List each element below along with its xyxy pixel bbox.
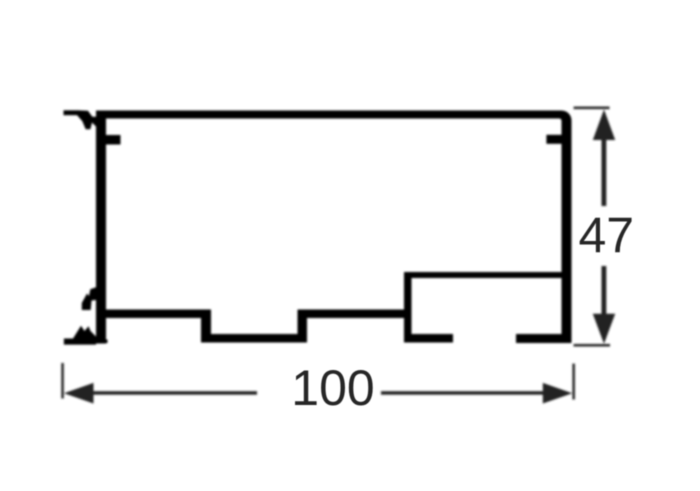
svg-text:100: 100: [291, 360, 374, 416]
svg-text:47: 47: [578, 208, 634, 264]
